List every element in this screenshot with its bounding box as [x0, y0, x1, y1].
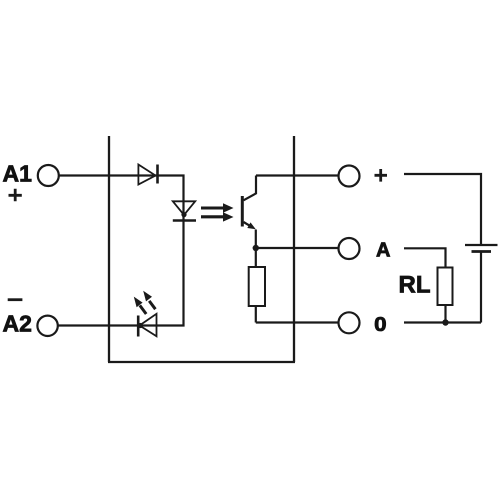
- svg-text:A: A: [376, 240, 390, 262]
- svg-text:A2: A2: [3, 311, 32, 337]
- svg-text:A1: A1: [3, 161, 33, 187]
- svg-text:0: 0: [374, 314, 386, 336]
- svg-text:RL: RL: [399, 272, 431, 299]
